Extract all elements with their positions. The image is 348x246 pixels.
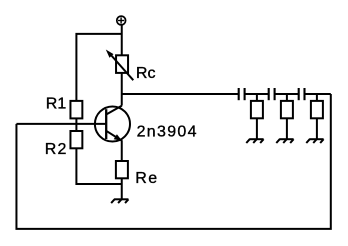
ground (node 3) <box>306 139 323 143</box>
wire Rc to collector <box>121 73 123 106</box>
transistor Q1 2n3904 <box>95 106 130 142</box>
resistor Rc (variable) <box>106 50 134 81</box>
svg-text:R1: R1 <box>46 95 67 112</box>
wire RL2 to ground <box>286 118 288 139</box>
ground (emitter) <box>111 199 128 203</box>
svg-text:R2: R2 <box>45 141 68 158</box>
node 2 / wire to RL2 <box>286 94 288 101</box>
ground (node 2) <box>276 139 293 143</box>
wire C1 to C2 <box>245 93 269 95</box>
resistor RL1 <box>251 101 263 118</box>
svg-text:2n3904: 2n3904 <box>137 124 198 141</box>
capacitor C2 <box>269 88 275 100</box>
wire C2 to C3 <box>275 93 299 95</box>
ground (node 1) <box>246 139 263 143</box>
capacitor C1 <box>239 88 245 100</box>
wire power branch to R1 <box>76 34 121 101</box>
wire collector output to ladder <box>122 93 239 95</box>
resistor RL2 <box>281 101 293 118</box>
wire R1 to base wire <box>75 118 77 124</box>
wire base to R2 <box>75 124 77 131</box>
svg-text:Re: Re <box>135 170 158 187</box>
wire C3 to right frame <box>305 93 331 95</box>
wire base from left frame to transistor base <box>16 123 106 125</box>
wire emitter to Re <box>121 141 123 162</box>
power source V+ <box>117 16 126 25</box>
wire RL1 to ground <box>256 118 258 139</box>
svg-text:Rc: Rc <box>136 65 156 82</box>
wire Re to ground <box>121 178 123 199</box>
wire RL3 to ground <box>316 118 318 139</box>
wire power to Rc <box>121 25 123 55</box>
wire outer loop: right frame, bottom frame, left frame <box>16 94 330 229</box>
resistor RL3 <box>311 101 323 118</box>
node 1 / wire to RL1 <box>256 94 258 101</box>
resistor R2 <box>70 131 82 148</box>
resistor Re <box>116 161 128 178</box>
capacitor C3 <box>299 88 305 100</box>
wire R2 to emitter node <box>76 148 121 184</box>
resistor R1 <box>70 101 82 119</box>
node 3 / wire to RL3 <box>316 94 318 101</box>
